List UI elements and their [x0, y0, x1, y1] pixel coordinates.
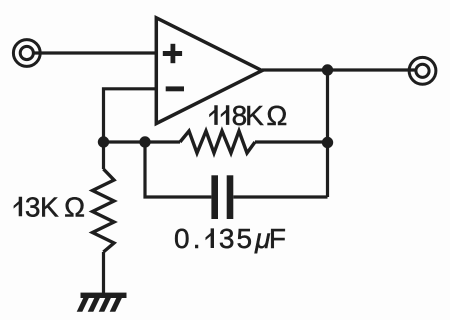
node capacitor branch junction [139, 136, 150, 147]
node output junction [322, 64, 333, 75]
svg-text:8KΩ: 8KΩ [232, 100, 288, 131]
op-amp U1 [156, 18, 262, 124]
input terminal J1 [13, 40, 40, 67]
wire to ground [102, 252, 105, 294]
svg-text:35μF: 35μF [219, 223, 288, 254]
wire to resistor R2 [102, 142, 105, 169]
output terminal J2 [409, 57, 436, 84]
- input mark [166, 86, 184, 91]
wire resistor right [255, 140, 328, 143]
resistor R2 13K zigzag [93, 169, 115, 252]
+ input mark [163, 44, 182, 63]
node inverting junction [98, 136, 109, 147]
svg-text:3KΩ: 3KΩ [25, 191, 85, 222]
svg-text:0.: 0. [174, 223, 201, 254]
wire feedback right vertical [326, 70, 329, 197]
capacitor C1 [211, 175, 233, 219]
resistor R1 118K zigzag [180, 131, 255, 153]
node feedback resistor right [322, 137, 333, 148]
wire op-amp output [262, 68, 416, 71]
label R2 value 13K ohm [14, 197, 23, 217]
wire capacitor left [145, 142, 211, 197]
wire resistor left [104, 140, 181, 143]
wire input to op-amp + [34, 51, 158, 54]
wire inverting input [104, 89, 158, 142]
ground [77, 293, 127, 312]
label R1 value 118K ohm [209, 105, 229, 125]
wire capacitor right [233, 195, 327, 198]
